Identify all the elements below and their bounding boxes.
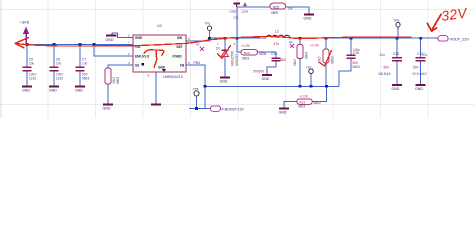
capacitor C14 labels	[413, 52, 428, 76]
svg-text:10u: 10u	[29, 62, 35, 66]
node zener tap	[224, 37, 227, 40]
wire cap C5 drop	[26, 45, 28, 68]
capacitor C7 labels	[82, 58, 89, 81]
pin numbers	[128, 34, 236, 78]
wire TP8 stub	[397, 27, 399, 38]
svg-text:+/-1%: +/-1%	[310, 43, 319, 47]
wire zener drop	[224, 38, 226, 50]
node TP6 bottom	[195, 107, 198, 110]
node EN tap	[93, 43, 96, 46]
wire SW pin jog	[186, 38, 209, 41]
svg-text:12V0: 12V0	[242, 10, 249, 14]
svg-text:0603: 0603	[82, 76, 89, 80]
capacitor C15 labels	[353, 48, 361, 69]
wire FB horizontal	[205, 85, 339, 87]
svg-text:SW: SW	[177, 36, 182, 40]
svg-text:0805: 0805	[271, 11, 278, 15]
svg-text:D6.3x16: D6.3x16	[379, 72, 391, 76]
resistor R25 bleeder top	[270, 3, 293, 15]
node R11 tap	[299, 37, 302, 40]
svg-text:0603: 0603	[298, 105, 305, 109]
wire input rail	[26, 44, 133, 46]
svg-text:GND: GND	[230, 10, 236, 14]
wire cap C6 drop	[53, 45, 55, 68]
wire pin2 to gnd step	[112, 33, 133, 38]
wire vertical node x237	[236, 7, 238, 38]
ground bar C14	[416, 84, 426, 86]
ground bar C13	[392, 84, 402, 86]
node C14 tap	[419, 37, 422, 40]
red check on R12	[320, 51, 332, 67]
svg-text:50V: 50V	[413, 66, 420, 70]
test point TP7	[306, 65, 313, 73]
net flag P-BOOST-12V	[211, 106, 245, 112]
red arrow at output	[428, 15, 442, 32]
svg-text:GND: GND	[392, 87, 400, 91]
red marker arrowhead left	[15, 38, 29, 48]
svg-text:GND: GND	[135, 36, 143, 40]
svg-text:GND: GND	[49, 89, 57, 93]
wire R4 to ground	[107, 84, 109, 104]
svg-text:LMR62421X: LMR62421X	[163, 75, 184, 79]
node C7 tap	[79, 43, 82, 46]
svg-text:0603: 0603	[305, 52, 309, 59]
wire C13 drop	[396, 38, 398, 57]
wire FB pin run	[186, 65, 205, 109]
zener diode D3	[216, 47, 239, 67]
grid lines	[0, 0, 474, 118]
ground bar R13	[279, 108, 289, 110]
svg-text:SOD323: SOD323	[235, 54, 239, 66]
test point TP5	[205, 22, 212, 31]
wire output rail	[209, 37, 266, 39]
capacitor C15	[347, 54, 356, 56]
svg-text:TP8: TP8	[394, 19, 400, 23]
ground bar IC pad	[151, 103, 161, 105]
svg-text:10k: 10k	[288, 7, 294, 11]
wire R12 divider	[325, 38, 327, 49]
wire C16 to gnd	[267, 61, 276, 74]
svg-text:FB: FB	[180, 63, 185, 67]
capacitor C6	[50, 66, 59, 68]
svg-text:560: 560	[280, 58, 286, 62]
wire top bleeder left	[237, 6, 270, 8]
wire R11 divider top	[299, 38, 301, 44]
resistor R12 divider	[310, 43, 335, 63]
wire TP6 stub	[196, 96, 198, 109]
svg-text:A1: A1	[289, 40, 293, 44]
wire top bleeder right to gnd	[286, 7, 310, 14]
wire R13 left to gnd	[284, 102, 297, 108]
resistor R13 lower divider	[297, 94, 321, 108]
wire EN pin to rail	[94, 45, 133, 57]
ground bar C7	[75, 85, 85, 87]
capacitor C16	[272, 57, 281, 59]
svg-text:G+0.4x10: G+0.4x10	[413, 72, 427, 76]
red marker annotations	[15, 15, 441, 68]
svg-text:GND: GND	[106, 38, 114, 42]
node TP5 tap	[208, 37, 211, 40]
test point TP6	[193, 87, 199, 96]
IC U2 regulator box	[133, 24, 186, 79]
svg-text:0603: 0603	[242, 56, 249, 60]
svg-text:50V: 50V	[384, 66, 391, 70]
capacitor C5	[23, 66, 32, 68]
svg-text:C13: C13	[393, 52, 399, 56]
wire pin4 to resistor R4	[108, 65, 133, 68]
wire C15 chain	[350, 38, 352, 55]
test point TP8	[394, 19, 401, 27]
red marker main line	[15, 36, 411, 46]
capacitor C7	[76, 66, 85, 68]
svg-text:1u0: 1u0	[82, 62, 88, 66]
svg-text:47u: 47u	[274, 42, 280, 46]
svg-text:0603: 0603	[353, 65, 360, 69]
svg-text:1210: 1210	[56, 76, 63, 80]
tiny labels near noERC	[196, 40, 293, 47]
ground bar C6	[49, 85, 59, 87]
red marker scribble on IC	[144, 50, 164, 55]
node x237 tap	[236, 37, 239, 40]
red handwritten 32V	[440, 4, 469, 24]
node C13 tap	[396, 37, 399, 40]
svg-text:PGND: PGND	[173, 54, 183, 58]
wire TP5 stub	[209, 31, 211, 39]
capacitor C13	[392, 57, 402, 59]
node FB corner	[204, 85, 207, 88]
svg-text:D3: D3	[216, 47, 220, 51]
svg-text:TP7: TP7	[306, 65, 312, 69]
wire cap C7 drop	[79, 45, 81, 68]
svg-text:TP6: TP6	[193, 87, 199, 91]
svg-text:GND: GND	[22, 89, 30, 93]
node C6 tap	[53, 43, 56, 46]
svg-text:GND: GND	[304, 17, 312, 21]
svg-text:L2: L2	[275, 30, 279, 34]
svg-text:22u: 22u	[380, 53, 386, 57]
svg-text:GND: GND	[220, 80, 228, 84]
resistor R11 divider top	[293, 45, 308, 67]
capacitor C5 labels	[29, 58, 37, 81]
svg-text:10u: 10u	[56, 62, 62, 66]
svg-text:GND: GND	[279, 111, 287, 115]
ground stub pin2 step	[111, 33, 113, 36]
svg-text:0603: 0603	[116, 77, 120, 84]
ground bar zener	[220, 76, 230, 78]
svg-text:BST: BST	[177, 45, 183, 49]
node C15 tap	[350, 37, 353, 40]
ground bar R4	[103, 103, 113, 105]
capacitor C6 labels	[56, 58, 64, 81]
red check on zener	[218, 46, 231, 59]
ground bar pin2 step	[106, 35, 117, 37]
svg-text:463k: 463k	[259, 52, 267, 56]
svg-text:A2: A2	[196, 43, 200, 47]
ground bar top bleeder	[304, 13, 314, 15]
svg-text:+/-1%: +/-1%	[299, 94, 308, 98]
svg-text:R25: R25	[273, 5, 279, 9]
node R11 bottom	[299, 85, 302, 88]
GND texts	[22, 17, 423, 115]
capacitor plates and GND bars	[23, 55, 426, 70]
wire C14 drop	[420, 38, 422, 57]
noERC cross marks	[200, 44, 294, 51]
svg-text:100n: 100n	[353, 48, 360, 52]
svg-text:U2: U2	[157, 24, 162, 28]
wire IC gnd stub	[155, 72, 157, 104]
power port +3V6 arrow	[20, 20, 30, 45]
ground bar C16	[262, 74, 272, 76]
inductor L2	[266, 35, 290, 38]
node R12 tap	[325, 37, 328, 40]
svg-text:GND: GND	[262, 77, 270, 81]
resistor R4 vertical	[105, 68, 120, 84]
svg-text:56k2: 56k2	[293, 59, 297, 66]
svg-text:C21: C21	[233, 16, 239, 20]
svg-text:47u: 47u	[422, 53, 428, 57]
svg-text:P-BOOST-12V: P-BOOST-12V	[222, 107, 245, 111]
capacitor C16 labels	[253, 52, 286, 74]
node input arrow junction	[26, 43, 29, 46]
svg-text:SS: SS	[135, 63, 139, 67]
svg-text:GND: GND	[103, 107, 111, 111]
svg-text:1210: 1210	[29, 76, 36, 80]
wire R13 right up	[312, 86, 327, 101]
ground bar C5	[22, 85, 32, 87]
power symbols x237 top	[230, 2, 249, 20]
svg-text:5%/50V: 5%/50V	[253, 69, 265, 73]
svg-text:0603: 0603	[331, 56, 335, 63]
svg-text:R10: R10	[244, 51, 250, 55]
svg-text:VOUT_12V: VOUT_12V	[450, 37, 470, 41]
svg-text:+3V6: +3V6	[20, 20, 30, 25]
capacitor C14	[416, 57, 426, 59]
svg-text:FB3: FB3	[194, 61, 200, 65]
svg-text:TP5: TP5	[205, 22, 211, 26]
node TP7 bottom	[310, 85, 313, 88]
resistor R10 feedforward	[241, 44, 267, 60]
svg-text:56k2: 56k2	[314, 101, 321, 105]
svg-text:+/-1%: +/-1%	[241, 44, 250, 48]
wire TP7 stub	[310, 74, 312, 87]
svg-text:GND: GND	[415, 87, 423, 91]
svg-text:EN/UVLO: EN/UVLO	[135, 54, 150, 58]
wire bottom TP/flag	[189, 108, 211, 110]
net flag VOUT_12V	[438, 36, 469, 42]
capacitor C13 labels	[379, 52, 400, 76]
svg-text:GND: GND	[75, 89, 83, 93]
svg-text:C16: C16	[271, 52, 277, 56]
node R12 bottom	[325, 85, 328, 88]
wire R10 to C16	[258, 52, 277, 58]
